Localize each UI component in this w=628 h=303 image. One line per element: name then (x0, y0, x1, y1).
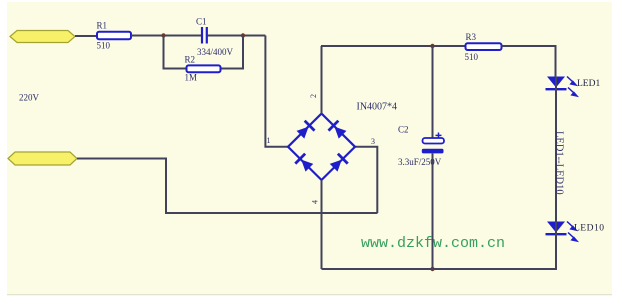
svg-text:1: 1 (267, 136, 271, 145)
wire bridge pin 4 down to DC- rail (321, 180, 323, 269)
svg-text:LED1--LED10: LED1--LED10 (554, 131, 565, 195)
bottom edge shading (7, 294, 612, 295)
LED LED1 (546, 77, 567, 91)
wire R2 branch right (221, 36, 244, 69)
LED LED10 (546, 222, 567, 236)
svg-text:4: 4 (311, 200, 320, 204)
svg-text:C2: C2 (398, 125, 409, 135)
svg-text:220V: 220V (19, 93, 40, 103)
wire C1 right plate to corner (207, 35, 265, 37)
resistor R1 (97, 32, 131, 39)
bridge rectifier D1-D4 diamond (288, 114, 355, 181)
svg-text:C1: C1 (196, 17, 207, 27)
wire bridge pin 3 stub (355, 147, 377, 213)
svg-text:LED1: LED1 (577, 79, 600, 89)
svg-text:IN4007*4: IN4007*4 (357, 102, 398, 113)
capacitor C2 (polarized) (422, 133, 444, 154)
diode D3 (bottom-left edge) (294, 153, 314, 173)
svg-text:334/400V: 334/400V (197, 47, 234, 57)
terminal P2 (220V neutral) (8, 152, 77, 165)
diode D1 (left-top edge) (295, 120, 315, 140)
svg-text:510: 510 (97, 41, 111, 51)
LED10 light arrows (567, 222, 577, 242)
wire bridge pin 2 up to DC+ rail (321, 46, 323, 114)
wire DC+ top rail left of R3 (321, 45, 466, 47)
junction node A (161, 33, 165, 37)
wire corner down to bridge pin 1 (265, 36, 288, 147)
diode D2 (top-right edge) (327, 120, 347, 140)
junction node C2 bottom (430, 267, 434, 271)
resistor R3 (466, 43, 502, 50)
svg-text:LED10: LED10 (574, 224, 604, 234)
svg-text:R1: R1 (97, 21, 108, 31)
diode D4 (bottom-right edge) (329, 153, 349, 173)
junction node B (241, 33, 245, 37)
wire LED10 down and bottom rail (322, 235, 557, 269)
wire C2 upper lead (432, 46, 434, 139)
svg-text:3: 3 (371, 137, 375, 146)
wire R2 branch left (164, 36, 187, 69)
resistor R2 (187, 65, 221, 72)
wire P2 to bridge pin 3 (77, 159, 378, 214)
svg-text:R2: R2 (185, 55, 196, 65)
svg-text:2: 2 (309, 94, 318, 98)
terminal P1 (220V live) (10, 31, 75, 43)
wire R3 to LED chain corner (502, 46, 556, 77)
wire C2 lower lead (432, 153, 434, 269)
LED1 light arrows (567, 77, 577, 97)
svg-text:R3: R3 (466, 32, 477, 42)
svg-text:3.3uF/250V: 3.3uF/250V (398, 157, 442, 167)
wire through LED1 (555, 77, 557, 91)
svg-text:510: 510 (465, 52, 479, 62)
wire R1 to C1 left plate (131, 35, 201, 37)
wire P1 to R1 (75, 35, 97, 37)
svg-text:www.dzkfw.com.cn: www.dzkfw.com.cn (361, 235, 505, 252)
wire LED1 to LED10 (555, 90, 557, 221)
svg-text:1M: 1M (185, 73, 198, 83)
capacitor C1 (202, 27, 207, 44)
junction node C2 top (430, 44, 434, 48)
wire through LED10 (555, 222, 557, 236)
